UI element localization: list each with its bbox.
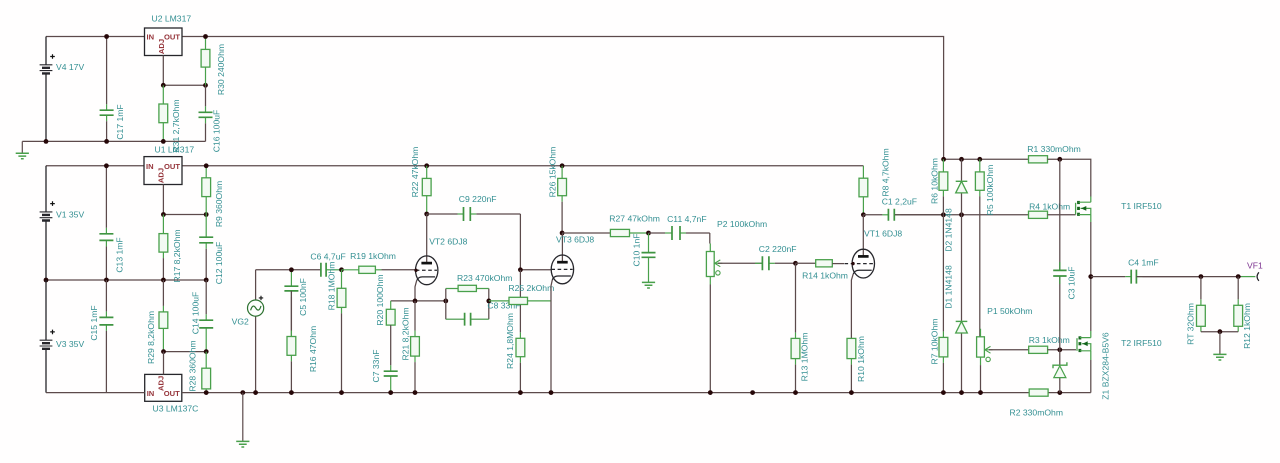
diode D1 1N4148 <box>944 215 968 393</box>
junction dot output node <box>1088 274 1093 279</box>
capacitor C5 100nF <box>284 270 308 337</box>
wire U1 ADJ lead <box>162 185 164 215</box>
junction dots input node <box>289 267 344 272</box>
resistor R17 8,2kOhm <box>159 215 182 283</box>
wire U3 ADJ lead <box>163 352 165 375</box>
battery V1 35V <box>40 166 85 280</box>
svg-text:VT1 6DJ8: VT1 6DJ8 <box>864 229 902 239</box>
wire R14 to VT1 grid <box>832 263 844 265</box>
svg-text:R3 1kOhm: R3 1kOhm <box>1029 335 1070 345</box>
svg-text:R6 10kOhm: R6 10kOhm <box>930 158 940 204</box>
svg-text:T2 IRF510: T2 IRF510 <box>1121 338 1162 348</box>
resistor R25 2kOhm <box>489 283 554 305</box>
svg-text:RT 32Ohm: RT 32Ohm <box>1185 303 1195 345</box>
junction dots VT2 cathode node <box>413 299 449 304</box>
svg-text:VT3 6DJ8: VT3 6DJ8 <box>556 235 594 245</box>
svg-text:V4 17V: V4 17V <box>56 62 84 72</box>
capacitor C11 4,7nF <box>665 214 710 240</box>
capacitor C12 100uF <box>199 215 224 285</box>
svg-text:C12 100uF: C12 100uF <box>214 242 224 285</box>
junction dot C2/R14/R13 <box>793 261 798 266</box>
junction dot VT3 anode node <box>560 231 565 236</box>
resistor R9 360Ohm <box>202 166 224 227</box>
junction dot load ground <box>1218 329 1223 334</box>
svg-text:OUT: OUT <box>164 389 180 398</box>
wire T1 source stub <box>1090 215 1092 222</box>
junction dot R1/C3 <box>1057 157 1062 162</box>
svg-text:C9 220nF: C9 220nF <box>459 194 497 204</box>
junction dot R3/Z1/C3 <box>1057 347 1062 352</box>
wire U2 OUT rail to right column <box>182 37 944 160</box>
capacitor C10 1nF <box>631 233 655 266</box>
resistor R22 47kOhm <box>410 147 431 214</box>
wire R4 to T1 gate <box>1048 214 1076 216</box>
wire ADJ junction rail (U1) <box>163 214 206 216</box>
svg-text:R8 4,7kOhm: R8 4,7kOhm <box>880 148 890 196</box>
svg-text:U1 LM317: U1 LM317 <box>155 145 195 155</box>
wire top-supply return rail <box>22 140 205 142</box>
capacitor C17 1mF <box>100 37 125 142</box>
wire C2 node to R14 <box>796 262 816 264</box>
wire VT3 anode to R27 <box>562 232 610 234</box>
svg-text:R28 360Ohm: R28 360Ohm <box>187 340 197 391</box>
pin dot VT2 grid <box>414 269 417 272</box>
junction dots top supply rail <box>104 34 208 39</box>
svg-text:C16 100uF: C16 100uF <box>211 110 221 153</box>
resistor R28 360Ohm <box>187 340 210 392</box>
wire T2 source stub <box>1090 351 1092 360</box>
svg-text:R13 1MOhm: R13 1MOhm <box>800 333 810 382</box>
svg-text:C10 1nF: C10 1nF <box>631 234 641 267</box>
capacitor C7 33nF <box>371 325 398 393</box>
wire R27 node to C11 <box>649 232 666 234</box>
svg-text:R7 10kOhm: R7 10kOhm <box>930 319 940 365</box>
junction dots U2 ADJ rail <box>161 83 208 88</box>
regulator U1 LM317 <box>144 145 194 185</box>
resistor R21 8,2kOhm <box>400 301 419 393</box>
zener diode Z1 BZX284-B5V6 <box>1053 332 1110 400</box>
wire P1 wiper to R3 <box>989 349 1029 351</box>
svg-text:P2 100kOhm: P2 100kOhm <box>717 219 767 229</box>
battery V4 17V <box>40 37 85 142</box>
junction dots plate-supply rail <box>104 163 564 168</box>
resistor R29 8,2kOhm <box>146 280 168 364</box>
resistor R8 4,7kOhm <box>859 148 890 214</box>
svg-text:R16 47Ohm: R16 47Ohm <box>308 326 318 372</box>
resistor R2 330mOhm <box>1010 389 1064 418</box>
junction dots output line <box>1199 274 1241 279</box>
junction dots U3 ADJ rail <box>161 349 209 354</box>
svg-text:R4 1kOhm: R4 1kOhm <box>1029 202 1070 212</box>
svg-text:R9 360Ohm: R9 360Ohm <box>214 181 224 227</box>
wire VG2 to input node <box>256 269 321 271</box>
junction dot VT1 anode node <box>861 212 866 217</box>
junction dots bottom rail <box>204 390 1062 395</box>
wire ADJ junction rail (U3) <box>164 351 207 353</box>
svg-text:C15 1mF: C15 1mF <box>89 305 99 340</box>
svg-text:R30 240Ohm: R30 240Ohm <box>216 44 226 95</box>
wire R3 to T2 gate <box>1048 349 1076 351</box>
ground (signal common) <box>236 393 249 447</box>
resistor R10 1kOhm <box>847 336 866 393</box>
wire VT3 grid <box>520 269 551 271</box>
resistor R6 10kOhm <box>930 158 948 215</box>
wire ADJ junction rail (U2) <box>163 84 205 86</box>
svg-text:OUT: OUT <box>164 162 180 171</box>
wire U2 ADJ lead <box>162 56 164 86</box>
svg-text:ADJ: ADJ <box>157 376 166 391</box>
svg-text:C3 10uF: C3 10uF <box>1066 267 1076 300</box>
svg-text:C6 4,7uF: C6 4,7uF <box>310 252 345 262</box>
capacitor C16 100uF <box>199 85 222 152</box>
svg-text:R22 47kOhm: R22 47kOhm <box>410 147 420 198</box>
wire VT2 cathode node rail <box>391 300 446 302</box>
svg-text:R24 1,8MOhm: R24 1,8MOhm <box>505 313 515 369</box>
svg-text:P1 50kOhm: P1 50kOhm <box>987 306 1032 316</box>
junction dots top-supply return <box>44 139 166 144</box>
wire V1+ to U1 IN (rail y165.8) <box>46 165 144 167</box>
svg-text:R27 47kOhm: R27 47kOhm <box>609 214 660 224</box>
svg-text:R10 1kOhm: R10 1kOhm <box>856 336 866 382</box>
svg-text:VT2 6DJ8: VT2 6DJ8 <box>429 237 467 247</box>
resistor R16 47Ohm <box>287 291 318 393</box>
resistor R18 1MOhm <box>326 262 346 393</box>
svg-text:C17 1mF: C17 1mF <box>115 104 125 139</box>
wire bottom rail right of R2 <box>1048 392 1091 394</box>
wire P1 bottom to rail <box>980 365 982 393</box>
junction dots U1 ADJ rail <box>161 212 209 217</box>
wire U1 OUT plate-supply rail <box>182 165 863 167</box>
svg-text:ADJ: ADJ <box>157 168 166 183</box>
wire VF1 terminal lead <box>1241 276 1255 278</box>
wire C11 to P2 top <box>709 233 711 244</box>
resistor R3 1kOhm <box>1029 335 1070 353</box>
feedback network R23 470kOhm parallel C8 33nF <box>446 273 521 326</box>
svg-text:R29 8,2kOhm: R29 8,2kOhm <box>146 311 156 364</box>
wire T1 drain stub <box>1090 197 1092 203</box>
wire T2 source to bottom rail <box>1090 360 1092 393</box>
capacitor C15 1mF <box>89 280 113 393</box>
svg-text:V3 35V: V3 35V <box>56 339 84 349</box>
AC source VG2 <box>232 270 264 393</box>
regulator U2 LM317 <box>145 14 192 56</box>
svg-text:R2 330mOhm: R2 330mOhm <box>1010 408 1064 418</box>
svg-text:C1 2,2uF: C1 2,2uF <box>882 197 917 207</box>
resistor R4 1kOhm <box>1029 202 1071 219</box>
svg-text:D2 1N4148: D2 1N4148 <box>944 208 954 252</box>
wire V3- to U3 IN <box>46 392 145 394</box>
wire T1 source to output node <box>1090 222 1092 277</box>
regulator U3 LM137C <box>145 374 199 413</box>
resistor R12 1kOhm <box>1234 277 1252 349</box>
triode VT1 6DJ8 <box>845 215 903 339</box>
capacitor C6 4,7uF <box>310 252 345 277</box>
capacitor C13 1mF <box>99 166 124 280</box>
resistor R7 10kOhm <box>930 215 948 393</box>
svg-text:VF1: VF1 <box>1247 260 1263 270</box>
svg-text:T1 IRF510: T1 IRF510 <box>1121 201 1162 211</box>
svg-text:C11 4,7nF: C11 4,7nF <box>667 214 707 224</box>
svg-text:C2 220nF: C2 220nF <box>759 244 797 254</box>
svg-text:C5 100nF: C5 100nF <box>298 278 308 316</box>
terminal VF1 <box>1247 260 1263 281</box>
junction dot R23/C8 right <box>486 299 491 304</box>
capacitor C14 100uF <box>190 280 213 352</box>
capacitor C2 220nF <box>755 244 797 270</box>
wire T2 drain stub <box>1090 331 1092 338</box>
svg-text:U3 LM137C: U3 LM137C <box>153 404 199 414</box>
resistor R19 1kOhm <box>342 251 416 273</box>
wire output to VF1 <box>1136 276 1241 278</box>
svg-text:R18 1MOhm: R18 1MOhm <box>326 262 336 311</box>
svg-text:R12 1kOhm: R12 1kOhm <box>1242 303 1252 349</box>
triode VT2 6DJ8 <box>415 214 468 301</box>
svg-text:C4 1mF: C4 1mF <box>1128 258 1159 268</box>
capacitor C3 10uF (bootstrap) <box>1053 159 1076 349</box>
potentiometer P2 100kOhm <box>706 219 767 285</box>
resistor R1 330mOhm <box>1027 144 1081 163</box>
svg-text:OUT: OUT <box>164 33 180 42</box>
svg-text:R5 100kOhm: R5 100kOhm <box>985 165 995 216</box>
potentiometer P1 50kOhm <box>977 306 1033 365</box>
svg-text:R20 100Ohm: R20 100Ohm <box>375 274 385 325</box>
wire V4+ to U2 IN (rail y36.5) <box>46 36 145 38</box>
ground (C10) <box>642 258 655 288</box>
svg-text:D1 1N4148: D1 1N4148 <box>944 265 954 309</box>
ground (load) <box>1213 332 1226 360</box>
pin dot VT1 grid <box>851 262 854 265</box>
svg-text:IN: IN <box>147 33 155 42</box>
junction dot VT3 grid / R24 <box>518 267 523 272</box>
wire bottom rail (U3 OUT, common) <box>182 392 1029 394</box>
svg-text:C13 1mF: C13 1mF <box>114 237 124 272</box>
resistor R31 2,7kOhm <box>159 85 181 152</box>
svg-text:R19 1kOhm: R19 1kOhm <box>350 251 396 261</box>
resistor R30 240Ohm <box>201 37 226 95</box>
resistor R24 1,8MOhm <box>505 270 525 393</box>
capacitor C4 1mF <box>1091 258 1201 284</box>
wire R1 to T1 drain <box>1048 159 1091 196</box>
transistor T2 IRF510 <box>1077 336 1162 352</box>
resistor R26 15kOhm <box>547 147 566 233</box>
svg-text:V1 35V: V1 35V <box>56 209 84 219</box>
resistor R5 100kOhm <box>975 159 994 336</box>
resistor R27 47kOhm <box>609 214 660 237</box>
capacitor C9 220nF <box>427 194 521 221</box>
capacitor C1 2,2uF <box>863 197 943 221</box>
svg-text:R21 8,2kOhm: R21 8,2kOhm <box>400 307 410 360</box>
junction dots +rail <box>941 157 982 162</box>
svg-text:R17 8,2kOhm: R17 8,2kOhm <box>172 229 182 282</box>
ground (top-left) <box>16 141 29 158</box>
transistor T1 IRF510 <box>1076 201 1162 216</box>
resistor RT 32Ohm <box>1185 277 1205 345</box>
svg-text:IN: IN <box>146 162 154 171</box>
wire 0V mid rail <box>46 279 206 281</box>
svg-text:R25 2kOhm: R25 2kOhm <box>508 283 554 293</box>
wire P2 wiper to C2 <box>718 262 762 264</box>
battery V3 35V <box>40 280 85 393</box>
wire +rail to R1 <box>944 158 1029 160</box>
wire RT/R12 bottom <box>1201 331 1238 333</box>
resistor R13 1MOhm <box>791 263 809 392</box>
svg-text:R26 15kOhm: R26 15kOhm <box>547 147 557 198</box>
resistor R14 1kOhm <box>802 260 848 281</box>
svg-text:ADJ: ADJ <box>157 39 166 54</box>
wire P2 bottom to rail <box>709 285 711 393</box>
resistor R20 100Ohm <box>375 274 395 325</box>
wire C9 output down to VT3 grid <box>519 214 521 270</box>
junction dots mid rail <box>44 278 209 283</box>
svg-text:C7 33nF: C7 33nF <box>371 350 381 383</box>
junction dots gate rail T1 <box>941 212 964 217</box>
triode VT3 6DJ8 <box>551 233 594 393</box>
junction dot R27/C10/C11 <box>646 231 651 236</box>
svg-text:U2 LM317: U2 LM317 <box>152 14 192 24</box>
svg-text:C14 100uF: C14 100uF <box>190 292 200 335</box>
svg-text:R23 470kOhm: R23 470kOhm <box>457 273 512 283</box>
svg-text:Z1 BZX284-B5V6: Z1 BZX284-B5V6 <box>1100 332 1110 400</box>
svg-text:IN: IN <box>147 389 155 398</box>
svg-text:R1 330mOhm: R1 330mOhm <box>1027 144 1081 154</box>
junction dot VT2 anode node <box>424 212 429 217</box>
wire C1 to R4 rail <box>895 214 1029 216</box>
svg-text:VG2: VG2 <box>232 317 249 327</box>
svg-text:R14 1kOhm: R14 1kOhm <box>802 271 848 281</box>
diode D2 1N4148 <box>944 159 968 251</box>
wire T2 drain to output node <box>1090 277 1092 331</box>
